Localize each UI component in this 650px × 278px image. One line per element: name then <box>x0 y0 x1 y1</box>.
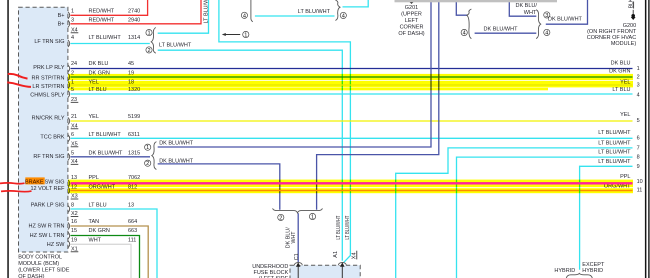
svg-text:BODY CONTROL: BODY CONTROL <box>18 255 62 261</box>
right label PPL pin 10 <box>620 174 643 185</box>
pin 4 label LT BLU/WHT 1314 <box>71 35 140 41</box>
svg-text:7: 7 <box>637 145 640 151</box>
wire DK GRN 19 <box>71 76 633 78</box>
svg-text:OF DASH): OF DASH) <box>398 31 424 37</box>
svg-text:DK BLU/WHT: DK BLU/WHT <box>159 141 194 147</box>
svg-text:6311: 6311 <box>128 132 140 138</box>
svg-text:RED/WHT: RED/WHT <box>89 9 115 15</box>
wire DK GRN 663 <box>71 236 140 278</box>
top-right brace opening <box>467 9 472 39</box>
highlighter band PPL row <box>68 180 633 188</box>
svg-text:DK BLU/WHT: DK BLU/WHT <box>548 16 583 22</box>
svg-text:HZ SW R TRN: HZ SW R TRN <box>29 224 65 230</box>
pin 19 label WHT 111 <box>71 238 136 244</box>
node 1 circled (1315 branch) <box>145 144 151 151</box>
connector X1 label <box>71 247 79 253</box>
label DK BLU/WHT to G200 <box>548 16 583 22</box>
svg-text:5: 5 <box>71 150 74 156</box>
svg-text:15: 15 <box>71 228 77 234</box>
wire LT BLU 1320 <box>71 93 633 95</box>
label HZ SW <box>47 242 66 248</box>
label RR STP/TRN <box>32 76 65 82</box>
svg-text:DK BLU: DK BLU <box>611 61 631 67</box>
pin 3 label RED/WHT 2940 <box>71 18 140 24</box>
svg-text:19: 19 <box>71 238 77 244</box>
pin 24 label DK BLU 45 <box>71 61 134 67</box>
svg-text:CORNER: CORNER <box>400 24 424 30</box>
node 1 circled (1314 branch) <box>146 29 152 36</box>
rotated label C1 <box>294 253 300 260</box>
svg-text:111: 111 <box>128 238 136 244</box>
svg-text:MODULE): MODULE) <box>611 41 637 47</box>
ground G200 splice dot and arrow <box>631 14 636 20</box>
svg-text:4: 4 <box>243 13 246 19</box>
svg-text:LT BLU/WHT: LT BLU/WHT <box>598 150 631 156</box>
wire LT BLU/WHT pin 8 path <box>457 157 633 278</box>
svg-text:LT BLU/WHT: LT BLU/WHT <box>89 132 122 138</box>
label LF TRN SIG <box>34 39 64 45</box>
svg-text:LT BLU: LT BLU <box>89 203 107 209</box>
rotated label LT BLU/WHT at top left vertical <box>204 0 210 24</box>
underhood fuse block box <box>290 265 360 278</box>
right label DK GRN pin 2 <box>609 69 640 81</box>
rotated label LT BLU/WHT at X4 wire <box>345 215 351 239</box>
connector X4 label <box>71 159 79 165</box>
label HZ SW L TRN <box>30 233 65 239</box>
label LT BLU/WHT on 1314 branch 2 <box>159 42 192 48</box>
underbrace joining branches to C1 <box>273 208 323 213</box>
svg-text:6: 6 <box>637 136 640 142</box>
pin 2 label DK GRN 19 <box>71 71 134 77</box>
right label ORG/WHT pin 11 <box>604 184 642 194</box>
wire RED/WHT 2740 <box>71 0 148 15</box>
svg-text:RR STP/TRN: RR STP/TRN <box>32 76 65 82</box>
svg-text:LT BLU/WHT: LT BLU/WHT <box>89 35 122 41</box>
connector X4 label <box>71 124 79 130</box>
svg-text:664: 664 <box>128 219 137 225</box>
svg-text:45: 45 <box>128 61 134 67</box>
wire LT BLU/WHT crossover segment <box>255 15 335 17</box>
svg-text:1: 1 <box>311 215 314 221</box>
svg-text:4: 4 <box>463 31 466 37</box>
svg-text:2: 2 <box>279 215 282 221</box>
label TCC BRK <box>40 135 64 141</box>
wire DK BLU/WHT into top-right brace <box>456 0 467 15</box>
svg-text:(ON RIGHT FRONT: (ON RIGHT FRONT <box>587 29 637 35</box>
brace split of wire 1314 <box>151 28 156 54</box>
svg-text:LT BLU/WHT: LT BLU/WHT <box>345 215 351 239</box>
svg-text:1: 1 <box>147 31 150 37</box>
wire TAN 664 <box>71 226 149 278</box>
ground G201 text <box>398 5 424 37</box>
svg-text:B+: B+ <box>58 13 65 19</box>
underhood fuse block text <box>252 264 288 278</box>
svg-text:WHT: WHT <box>291 231 297 244</box>
svg-text:OF DASH): OF DASH) <box>18 274 44 278</box>
svg-text:1314: 1314 <box>128 35 140 41</box>
wire PPL 7062 overlay <box>71 182 633 184</box>
svg-text:2: 2 <box>637 75 640 81</box>
svg-text:3: 3 <box>71 18 74 24</box>
svg-text:2940: 2940 <box>128 18 140 24</box>
label BODY CONTROL MODULE <box>18 255 70 278</box>
highlighter band rows 2-3 <box>68 74 633 90</box>
svg-text:5199: 5199 <box>128 114 140 120</box>
wire LT BLU 13 <box>71 209 158 278</box>
wire DK BLU/WHT top branch from top edge <box>509 0 536 16</box>
svg-text:2: 2 <box>147 48 150 54</box>
svg-text:LT BLU/WHT: LT BLU/WHT <box>159 42 192 48</box>
svg-text:2740: 2740 <box>128 9 140 15</box>
pin 5 label LT BLU 1320 <box>71 87 140 93</box>
svg-text:WHT: WHT <box>89 238 102 244</box>
svg-text:LT BLU/WHT: LT BLU/WHT <box>336 215 342 239</box>
svg-text:4: 4 <box>342 13 345 19</box>
pin 12 label ORG/WHT 812 <box>71 185 137 191</box>
label BRAKE SW SIG highlighted <box>25 177 65 185</box>
brace hybrid split <box>566 273 592 278</box>
svg-text:BRAKE: BRAKE <box>25 179 44 185</box>
svg-text:DK BLU/WHT: DK BLU/WHT <box>484 27 519 33</box>
annotation red arrow to BRAKE SW SIG <box>0 182 25 185</box>
label PARK LP SIG <box>31 203 65 209</box>
svg-text:DK BLU: DK BLU <box>89 61 109 67</box>
label HZ SW R TRN <box>29 224 65 230</box>
svg-text:8: 8 <box>637 155 640 161</box>
annotation red arrow to LR STP/TRN <box>7 82 31 87</box>
label LR STP/TRN <box>32 84 64 90</box>
svg-text:6: 6 <box>71 132 74 138</box>
svg-text:10: 10 <box>637 179 643 185</box>
svg-text:1315: 1315 <box>128 150 140 156</box>
connector X3 label <box>71 194 79 200</box>
svg-text:DK GRN: DK GRN <box>609 69 630 75</box>
label 12 VOLT REF <box>30 186 65 192</box>
svg-text:C1: C1 <box>294 253 300 260</box>
svg-text:11: 11 <box>637 188 643 194</box>
svg-text:24: 24 <box>71 61 77 67</box>
connector 23 label <box>71 97 79 103</box>
top-right brace closing <box>536 10 541 39</box>
wire LT BLU/WHT 1314 branch 2 <box>158 50 343 261</box>
svg-text:PRK LP RLY: PRK LP RLY <box>33 65 65 71</box>
node 4 circled right <box>340 12 346 19</box>
node 2 circled (1314 branch) <box>146 47 152 54</box>
ground G200 text <box>587 23 637 47</box>
svg-text:CORNER OF HVAC: CORNER OF HVAC <box>587 35 636 41</box>
connector X5 label <box>71 142 79 148</box>
connector X4 label <box>71 28 79 34</box>
svg-text:1: 1 <box>146 145 149 151</box>
entry arrow A1 <box>340 262 345 278</box>
label HYBRID <box>554 268 575 274</box>
label CHMSL SPLY <box>30 93 65 99</box>
label B+ <box>58 13 65 19</box>
wire LT BLU/WHT 1314 <box>71 43 150 45</box>
svg-text:LT BLU/WHT: LT BLU/WHT <box>598 130 631 136</box>
svg-text:TCC BRK: TCC BRK <box>40 135 64 141</box>
node 1 circled at underbrace <box>309 213 315 220</box>
pin 1 label RED/WHT 2740 <box>71 9 140 15</box>
top grey bar <box>395 0 558 2</box>
right label YEL pin 5 <box>620 112 640 124</box>
svg-text:LEFT: LEFT <box>405 18 419 24</box>
pin 21 label YEL 5199 <box>71 114 140 120</box>
crossover brace right (4) <box>335 0 340 21</box>
wire DK BLU/WHT elbow from fuse block to top <box>317 0 439 210</box>
svg-text:A1: A1 <box>333 251 339 258</box>
svg-text:HYBRID: HYBRID <box>582 268 603 274</box>
svg-text:PPL: PPL <box>620 174 630 180</box>
pin 1 label YEL 18 <box>71 80 134 86</box>
svg-text:1: 1 <box>244 33 247 39</box>
svg-text:RED/WHT: RED/WHT <box>89 18 115 24</box>
svg-text:WHT: WHT <box>524 10 537 16</box>
label EXCEPT HYBRID <box>582 262 605 274</box>
svg-text:(LOWER LEFT SIDE: (LOWER LEFT SIDE <box>18 268 70 274</box>
crossover brace left (4) <box>251 0 253 22</box>
right label LT BLU/WHT pin 6 <box>598 130 639 142</box>
svg-text:4: 4 <box>545 30 548 36</box>
node 3 circled <box>544 12 550 19</box>
node 4 circled left <box>241 12 247 19</box>
label LT BLU/WHT crossover <box>298 9 331 15</box>
brace split of wire 1315 <box>152 142 157 170</box>
rotated label A1 <box>333 251 339 258</box>
label PRK LP RLY <box>33 65 65 71</box>
wire BLK stub <box>632 2 634 15</box>
svg-text:2: 2 <box>146 161 149 167</box>
pin 6 label LT BLU/WHT 6311 <box>71 132 140 138</box>
label RF TRN SIG <box>33 154 64 160</box>
ground G201 symbol tip <box>409 2 414 4</box>
module BCM box <box>19 7 68 252</box>
wire LT BLU/WHT 1314 branch 1 <box>158 0 209 33</box>
svg-text:DK BLU/: DK BLU/ <box>515 3 537 9</box>
right label LT BLU/WHT pin 9 <box>598 159 639 170</box>
svg-text:MODULE (BCM): MODULE (BCM) <box>18 261 59 267</box>
wire LT BLU/WHT pin 9 path <box>580 166 633 269</box>
right page border <box>645 0 650 278</box>
label DK BLU/WHT branch 4 <box>484 27 519 33</box>
svg-text:LT BLU/WHT: LT BLU/WHT <box>598 140 631 146</box>
svg-text:HZ SW: HZ SW <box>47 242 66 248</box>
label RN/CRK RLY <box>32 115 65 121</box>
left page border <box>7 0 9 278</box>
label DK BLU/WHT on 1315 branch 1 <box>159 141 194 147</box>
reference arrow node 1 <box>222 31 249 38</box>
svg-text:LT BLU/WHT: LT BLU/WHT <box>598 159 631 165</box>
wire DK BLU/WHT to G200 <box>546 0 588 24</box>
pin 8 label LT BLU 13 <box>71 203 134 209</box>
entry arrow C1 <box>296 262 301 278</box>
svg-text:YEL: YEL <box>620 112 630 118</box>
connector X2 label <box>71 211 79 217</box>
svg-text:LT BLU: LT BLU <box>612 87 630 93</box>
svg-text:12 VOLT REF: 12 VOLT REF <box>30 186 65 192</box>
rotated label X4 underlined <box>352 251 358 260</box>
svg-text:(UPPER: (UPPER <box>401 11 422 17</box>
wire DK BLU/WHT branch 1 to G201 <box>158 0 431 147</box>
wire DK BLU/WHT 1315 <box>71 156 151 158</box>
svg-text:LT BLU/WHT: LT BLU/WHT <box>298 9 331 15</box>
annotation red arrow to 12 VOLT REF <box>1 190 32 193</box>
wire LT BLU/WHT from top to fuse block X4 <box>219 0 351 263</box>
fuse block entry bump A1 <box>338 262 346 265</box>
wire DK BLU/WHT branch 2 to fuse block <box>158 164 280 210</box>
pin 5 label DK BLU/WHT 1315 <box>71 150 140 156</box>
right label LT BLU/WHT pin 8 <box>598 150 639 161</box>
svg-text:1: 1 <box>637 66 640 72</box>
highlighter band ORG/WHT row <box>68 188 633 193</box>
wire WHT 111 <box>71 244 132 278</box>
pin 15 label DK GRN 663 <box>71 228 137 234</box>
svg-text:BLK: BLK <box>629 0 635 8</box>
wire PPL 7062 <box>71 182 633 184</box>
rotated label LT BLU/WHT at A1 wire <box>336 215 342 239</box>
wire DK BLU 45 <box>71 68 633 70</box>
svg-text:LT BLU/WHT: LT BLU/WHT <box>204 0 210 24</box>
wire LT BLU/WHT crossover out to top <box>343 0 369 7</box>
node 4 circled top-right-right <box>544 29 550 36</box>
right label DK BLU pin 1 <box>611 61 640 72</box>
node 2 circled (1315 branch) <box>145 160 151 167</box>
label DK BLU/WHT on 1315 branch 2 <box>159 159 194 165</box>
svg-text:RN/CRK RLY: RN/CRK RLY <box>32 115 65 121</box>
svg-text:PARK LP SIG: PARK LP SIG <box>31 203 65 209</box>
svg-text:4: 4 <box>637 92 640 98</box>
wire LT BLU/WHT 6311 <box>71 137 633 139</box>
svg-text:21: 21 <box>71 114 77 120</box>
svg-text:9: 9 <box>637 164 640 170</box>
right label YEL pin 3 <box>620 79 640 88</box>
svg-text:LF TRN SIG: LF TRN SIG <box>34 39 64 45</box>
connector pin brackets BCM <box>68 12 70 248</box>
wire RED/WHT 2940 <box>71 0 202 24</box>
pin 13 label PPL 7062 <box>71 175 140 181</box>
label DK BLU/WHT top branch <box>515 3 537 16</box>
svg-text:13: 13 <box>128 203 134 209</box>
svg-text:DK BLU/WHT: DK BLU/WHT <box>89 150 124 156</box>
label B+ <box>58 22 65 28</box>
wire C1 DK BLU/WHT to fuse block <box>297 213 299 262</box>
svg-text:CHMSL SPLY: CHMSL SPLY <box>30 93 65 99</box>
svg-text:RF TRN SIG: RF TRN SIG <box>33 154 64 160</box>
svg-text:B+: B+ <box>58 22 65 28</box>
svg-text:5: 5 <box>637 118 640 124</box>
svg-text:4: 4 <box>71 35 74 41</box>
right label LT BLU/WHT pin 7 <box>598 140 639 151</box>
node 2 circled at underbrace <box>278 214 284 221</box>
wire DK BLU/WHT branch 4 segment <box>475 32 537 34</box>
svg-text:G201: G201 <box>405 5 418 11</box>
svg-text:16: 16 <box>71 219 77 225</box>
svg-text:SW SIG: SW SIG <box>45 179 65 185</box>
svg-text:TAN: TAN <box>89 219 100 225</box>
svg-text:HYBRID: HYBRID <box>554 268 575 274</box>
pin 16 label TAN 664 <box>71 219 137 225</box>
svg-text:663: 663 <box>128 228 137 234</box>
svg-text:HZ SW L TRN: HZ SW L TRN <box>30 233 65 239</box>
svg-text:8: 8 <box>71 203 74 209</box>
svg-text:3: 3 <box>637 82 640 88</box>
node 4 circled top-right-left <box>461 29 467 36</box>
wire ORG/WHT 812 <box>71 190 633 192</box>
rotated label DK BLU/WHT at C1 wire <box>285 227 297 248</box>
wire LT BLU/WHT pin 7 path <box>396 148 633 278</box>
right label LT BLU pin 4 <box>612 87 639 98</box>
annotation red arrow to RR STP/TRN <box>8 74 28 79</box>
fuse block entry bump C1 <box>294 262 302 265</box>
wire YEL 18 <box>71 84 633 86</box>
svg-text:1: 1 <box>71 9 74 15</box>
wire YEL 5199 <box>71 120 633 122</box>
svg-text:LR STP/TRN: LR STP/TRN <box>32 84 64 90</box>
svg-text:YEL: YEL <box>89 114 99 120</box>
rotated label BLK <box>629 0 635 8</box>
svg-text:DK GRN: DK GRN <box>89 228 110 234</box>
